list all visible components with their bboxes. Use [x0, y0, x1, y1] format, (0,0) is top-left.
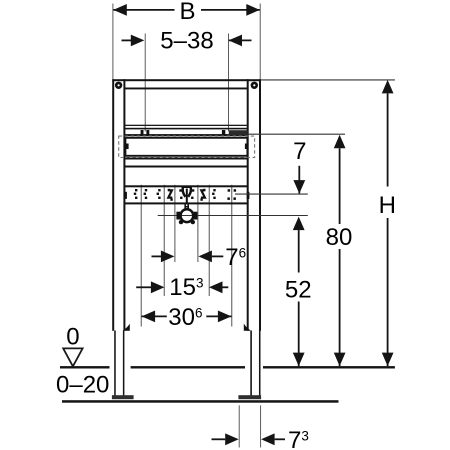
dimension 7-6 line	[152, 251, 224, 263]
band holes group 4	[212, 189, 216, 199]
reference line clamp to right	[158, 215, 308, 217]
dimension 7-3 extension line left	[238, 405, 240, 447]
faucet rail top line	[125, 125, 248, 126]
pipe clamp lug right	[194, 212, 198, 220]
floor level line	[60, 366, 395, 368]
traverse	[125, 138, 247, 156]
svg-text:73: 73	[288, 427, 309, 450]
reference line 80 top	[248, 133, 345, 135]
extension line 7-left	[174, 185, 176, 262]
datum triangle	[63, 348, 82, 366]
traverse tab right	[245, 144, 248, 150]
pipe clamp lug left	[176, 212, 180, 220]
foot plate left	[112, 395, 134, 399]
lower line below traverse	[125, 166, 248, 168]
band center crown fitting	[179, 186, 194, 204]
perforated band	[125, 185, 248, 204]
rail clip 3	[222, 130, 225, 135]
screw hole left	[115, 82, 122, 89]
band holes group 3	[157, 189, 161, 199]
band Z-fitting left	[168, 189, 173, 201]
dimension H vertical	[382, 80, 394, 366]
band tab left	[124, 192, 127, 199]
band holes group 2	[144, 189, 148, 199]
pipe clamp foot right	[191, 220, 195, 224]
rail clip 2	[146, 130, 149, 135]
dimension B extension line right	[259, 4, 261, 80]
svg-text:5–38: 5–38	[160, 27, 213, 54]
reference line band top to right	[235, 193, 308, 195]
svg-text:52: 52	[285, 276, 312, 303]
pipe clamp foot left	[179, 220, 183, 224]
svg-text:306: 306	[168, 304, 202, 331]
dimension B line	[113, 4, 259, 16]
svg-text:80: 80	[326, 224, 353, 251]
dimension 52 vertical	[293, 217, 305, 367]
screw hole right	[251, 82, 258, 89]
left leg	[114, 331, 124, 396]
extension line 30-left	[140, 185, 142, 327]
frame top rail	[112, 79, 261, 89]
line below traverse	[125, 158, 248, 160]
traverse tab left	[125, 144, 128, 150]
dashed rectangle	[119, 136, 255, 157]
extension line 7-right	[197, 185, 199, 262]
extension line 15-left	[163, 185, 165, 296]
svg-text:H: H	[379, 192, 396, 219]
leg clip right	[244, 324, 251, 331]
dimension 15-3 line	[136, 281, 228, 293]
dimension 7 vertical	[293, 166, 305, 194]
pipe clamp stem	[184, 204, 189, 209]
extension line 15-right	[208, 185, 210, 296]
band holes group 1	[134, 189, 138, 199]
extension line 30-right	[231, 185, 233, 327]
leg clip left	[123, 324, 130, 331]
dimension 5-38 extension line right	[228, 34, 230, 132]
dimension 5-38 line	[122, 35, 252, 47]
band tab right	[247, 192, 250, 199]
dimension B extension line left	[112, 4, 114, 80]
faucet rail bottom line	[125, 134, 248, 136]
band Z-fitting right	[200, 189, 205, 201]
pipe clamp ring	[181, 209, 194, 222]
svg-text:7: 7	[293, 138, 306, 165]
foot plate right	[238, 395, 261, 399]
svg-text:153: 153	[169, 274, 203, 301]
rail clip 1	[141, 130, 144, 135]
faucet rail second line	[125, 128, 248, 130]
right leg	[250, 331, 260, 396]
frame right upright	[247, 79, 261, 331]
dimension 7-3 extension line right	[260, 405, 262, 447]
finished floor line	[62, 400, 339, 403]
dimension 30-6 line	[142, 311, 232, 323]
dimension 5-38 extension line left	[144, 34, 146, 132]
svg-text:0: 0	[66, 323, 79, 350]
dimension H reference line top	[261, 79, 395, 81]
svg-text:76: 76	[225, 244, 246, 271]
rail dark segment	[229, 130, 248, 135]
band holes group 5	[227, 189, 236, 200]
dimension 7-3 line	[212, 433, 286, 445]
frame left upright	[112, 79, 125, 331]
svg-text:B: B	[179, 0, 195, 25]
dimension 80 vertical	[334, 135, 346, 366]
svg-text:0–20: 0–20	[56, 372, 109, 399]
